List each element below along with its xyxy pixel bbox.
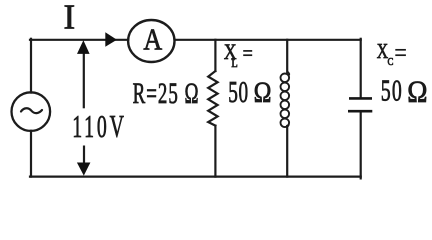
svg-text:I: I	[64, 0, 76, 37]
capacitor C top plate	[349, 97, 372, 100]
wire top right segment	[175, 39, 361, 41]
svg-text:Ω: Ω	[407, 75, 427, 109]
inductor L coil loops	[281, 72, 290, 128]
voltage up arrow shaft	[83, 50, 85, 108]
voltage up arrowhead	[77, 40, 90, 54]
wire right vertical lower	[360, 112, 362, 178]
wire resistor branch lower	[214, 126, 216, 177]
svg-text:50: 50	[381, 73, 403, 108]
label XC= : equals sign	[395, 50, 406, 55]
wire top left segment	[30, 39, 128, 41]
capacitor C bottom plate	[348, 110, 372, 113]
wire right vertical upper	[360, 39, 362, 98]
resistor R=25Ω zigzag	[208, 71, 217, 126]
label XL= : equals sign	[243, 51, 252, 55]
AC source circle	[12, 92, 51, 131]
wire inductor branch lower	[286, 126, 288, 177]
wire resistor branch upper	[214, 40, 216, 71]
svg-text:A: A	[143, 22, 162, 57]
wire left vertical upper	[30, 39, 32, 93]
svg-text:L: L	[231, 57, 238, 70]
svg-text:50: 50	[228, 75, 248, 110]
voltage down arrow shaft	[83, 146, 85, 165]
AC source tilde	[21, 108, 42, 113]
wire bottom	[30, 176, 361, 178]
svg-text:Ω: Ω	[254, 75, 272, 108]
svg-text:C: C	[388, 56, 394, 68]
current arrowhead	[105, 32, 117, 47]
voltage down arrowhead	[77, 163, 91, 176]
ammeter A circle	[128, 20, 174, 62]
wire inductor branch upper	[286, 40, 288, 73]
svg-text:R=25 Ω: R=25 Ω	[133, 78, 200, 110]
svg-text:110V: 110V	[72, 108, 126, 144]
wire left vertical lower	[30, 131, 32, 177]
